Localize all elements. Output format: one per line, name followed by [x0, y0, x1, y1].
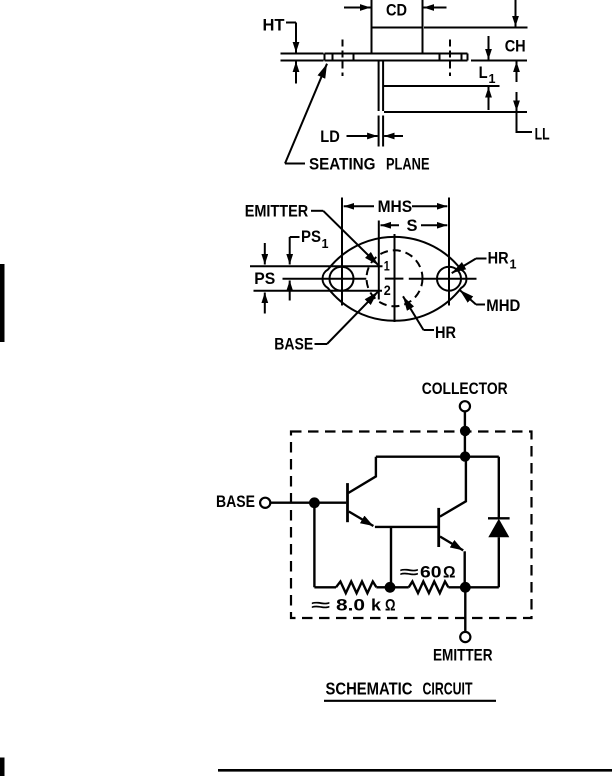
BASE terminal	[260, 498, 270, 508]
collector terminal	[460, 401, 470, 411]
dashed enclosure box	[291, 432, 532, 619]
svg-text:1: 1	[384, 258, 390, 274]
wire emitter terminal	[464, 587, 466, 632]
diode D1 triangle	[488, 519, 509, 537]
CD extension line right	[422, 0, 424, 28]
MHS extension line left (hole centerline)	[341, 198, 343, 306]
S extension line (pin centerline)	[378, 221, 380, 300]
diode branch wire lower	[498, 537, 500, 587]
transistor Q1 base bar	[346, 483, 349, 522]
diode D1 cathode bar	[488, 517, 510, 519]
svg-text:CH: CH	[505, 38, 526, 56]
seating plane leader	[285, 163, 305, 165]
PS1 elbow and down arrow	[290, 236, 300, 238]
flange outline (top view)	[322, 237, 466, 321]
transistor Q2 collector lead	[440, 457, 466, 517]
svg-text:EMITTER: EMITTER	[433, 646, 493, 664]
LD extension lines	[379, 116, 384, 147]
svg-text:PS: PS	[254, 270, 275, 288]
transistor Q2 emitter lead with arrow	[440, 537, 463, 551]
binding mark bottom left	[0, 758, 5, 777]
svg-text:S: S	[407, 217, 418, 235]
BASE leader	[315, 343, 328, 345]
svg-text:HT: HT	[263, 17, 285, 35]
svg-text:CIRCUIT: CIRCUIT	[423, 678, 473, 698]
PS up arrow outer	[264, 293, 266, 314]
wire base input	[270, 502, 346, 504]
svg-text:60: 60	[420, 563, 442, 581]
cap outline (side view)	[372, 28, 423, 54]
LD arrow right	[384, 135, 403, 137]
horizontal centerline left segment	[283, 278, 367, 280]
wire R1 to node	[376, 586, 390, 588]
MHD leader	[476, 304, 485, 306]
wire collector down	[464, 411, 466, 456]
seating plane extension line right	[471, 60, 527, 62]
wire emitter node to diode	[465, 586, 499, 588]
L1 bottom arrow	[488, 87, 490, 110]
HR leader	[424, 329, 435, 331]
CH top arrow	[515, 0, 517, 27]
CH bottom / LL dimension line with arrows	[516, 62, 518, 83]
wire Q2 emitter down	[464, 551, 466, 587]
flange extension lines left	[281, 54, 324, 61]
svg-text:MHS: MHS	[378, 198, 413, 216]
svg-text:≈: ≈	[399, 563, 418, 581]
resistor R2 (60 ohm) zigzag	[409, 582, 449, 594]
wire base node down	[313, 503, 315, 588]
mounting hole left	[330, 267, 354, 291]
lead (side view)	[379, 61, 384, 111]
mounting hole slot edges in flange	[333, 54, 462, 61]
svg-text:HR: HR	[435, 324, 456, 342]
cap top extension line to right	[424, 27, 528, 29]
flange (mounting flange side view)	[325, 54, 468, 61]
transistor Q2 base bar	[437, 508, 440, 547]
svg-text:COLLECTOR: COLLECTOR	[422, 380, 508, 398]
HR1 leader	[476, 258, 487, 260]
horizontal line pin 1 level	[250, 265, 383, 267]
svg-text:SCHEMATIC: SCHEMATIC	[326, 678, 413, 698]
emitter terminal	[460, 632, 470, 642]
transistor Q1 emitter lead with arrow	[349, 512, 374, 527]
LD arrow left	[347, 135, 378, 137]
svg-text:LD: LD	[320, 128, 340, 146]
mounting hole right	[437, 267, 461, 291]
svg-text:MHD: MHD	[486, 297, 520, 315]
CD dimension arrow left	[344, 7, 371, 9]
svg-text:8.0: 8.0	[336, 597, 365, 615]
L1 dimension line	[384, 85, 500, 87]
horizontal line pin 2 level	[254, 290, 383, 292]
svg-text:1: 1	[510, 257, 517, 272]
svg-text:k: k	[371, 597, 382, 615]
transistor Q1 collector lead	[348, 457, 376, 493]
svg-text:HR: HR	[488, 250, 509, 268]
node collector inner	[460, 451, 470, 461]
wire to resistor R1	[314, 586, 336, 588]
horizontal centerline center tick	[385, 278, 404, 280]
svg-text:PLANE: PLANE	[386, 156, 430, 174]
cap circle (dashed)	[367, 250, 423, 306]
svg-text:BASE: BASE	[216, 493, 255, 511]
mounting hole centerline left (dashed)	[342, 40, 344, 77]
horizontal centerline right segment	[409, 278, 477, 280]
svg-text:Ω: Ω	[443, 563, 456, 581]
L1 top arrow	[488, 36, 490, 60]
PS down arrow outer	[264, 243, 266, 265]
node at box top	[460, 426, 470, 436]
lead end line	[384, 111, 527, 113]
footer rule line	[218, 769, 612, 772]
svg-text:CD: CD	[386, 2, 407, 20]
package vertical centerline	[394, 234, 396, 322]
MHS extension line right (hole centerline)	[448, 198, 450, 306]
binding mark left	[0, 264, 5, 342]
svg-text:BASE: BASE	[274, 335, 313, 353]
wire node to resistor R2	[390, 586, 409, 588]
node emitter	[460, 582, 471, 593]
title underline	[324, 700, 496, 702]
svg-text:Ω: Ω	[385, 597, 396, 615]
PS1 up arrow	[289, 281, 291, 301]
HT label elbow and top arrow	[286, 22, 296, 24]
svg-text:EMITTER: EMITTER	[245, 203, 309, 221]
resistor R1 (8.0 k ohm) zigzag	[336, 582, 376, 594]
S dimension arrows	[381, 224, 400, 226]
EMITTER leader	[311, 210, 323, 212]
svg-text:LL: LL	[535, 126, 550, 144]
mounting hole centerline right (dashed)	[449, 40, 451, 77]
HT bottom arrow	[295, 62, 297, 84]
wire Q1 emitter to Q2 base	[375, 526, 439, 528]
MHS dimension arrows	[344, 205, 374, 207]
svg-text:L: L	[479, 64, 488, 82]
diode branch wire upper	[498, 457, 500, 519]
CD extension line left	[371, 0, 373, 28]
svg-text:SEATING: SEATING	[309, 156, 376, 174]
svg-text:PS: PS	[301, 228, 321, 246]
wire R2 to emitter node	[448, 586, 465, 588]
node base	[309, 497, 320, 508]
svg-text:1: 1	[489, 71, 496, 86]
wire drop to R1/R2 node	[390, 527, 392, 587]
wire top horizontal	[376, 456, 499, 458]
CD dimension arrow right	[424, 7, 447, 9]
svg-text:1: 1	[322, 236, 329, 251]
svg-text:≈: ≈	[311, 597, 330, 615]
svg-text:2: 2	[384, 282, 391, 298]
node between resistors	[385, 582, 396, 593]
